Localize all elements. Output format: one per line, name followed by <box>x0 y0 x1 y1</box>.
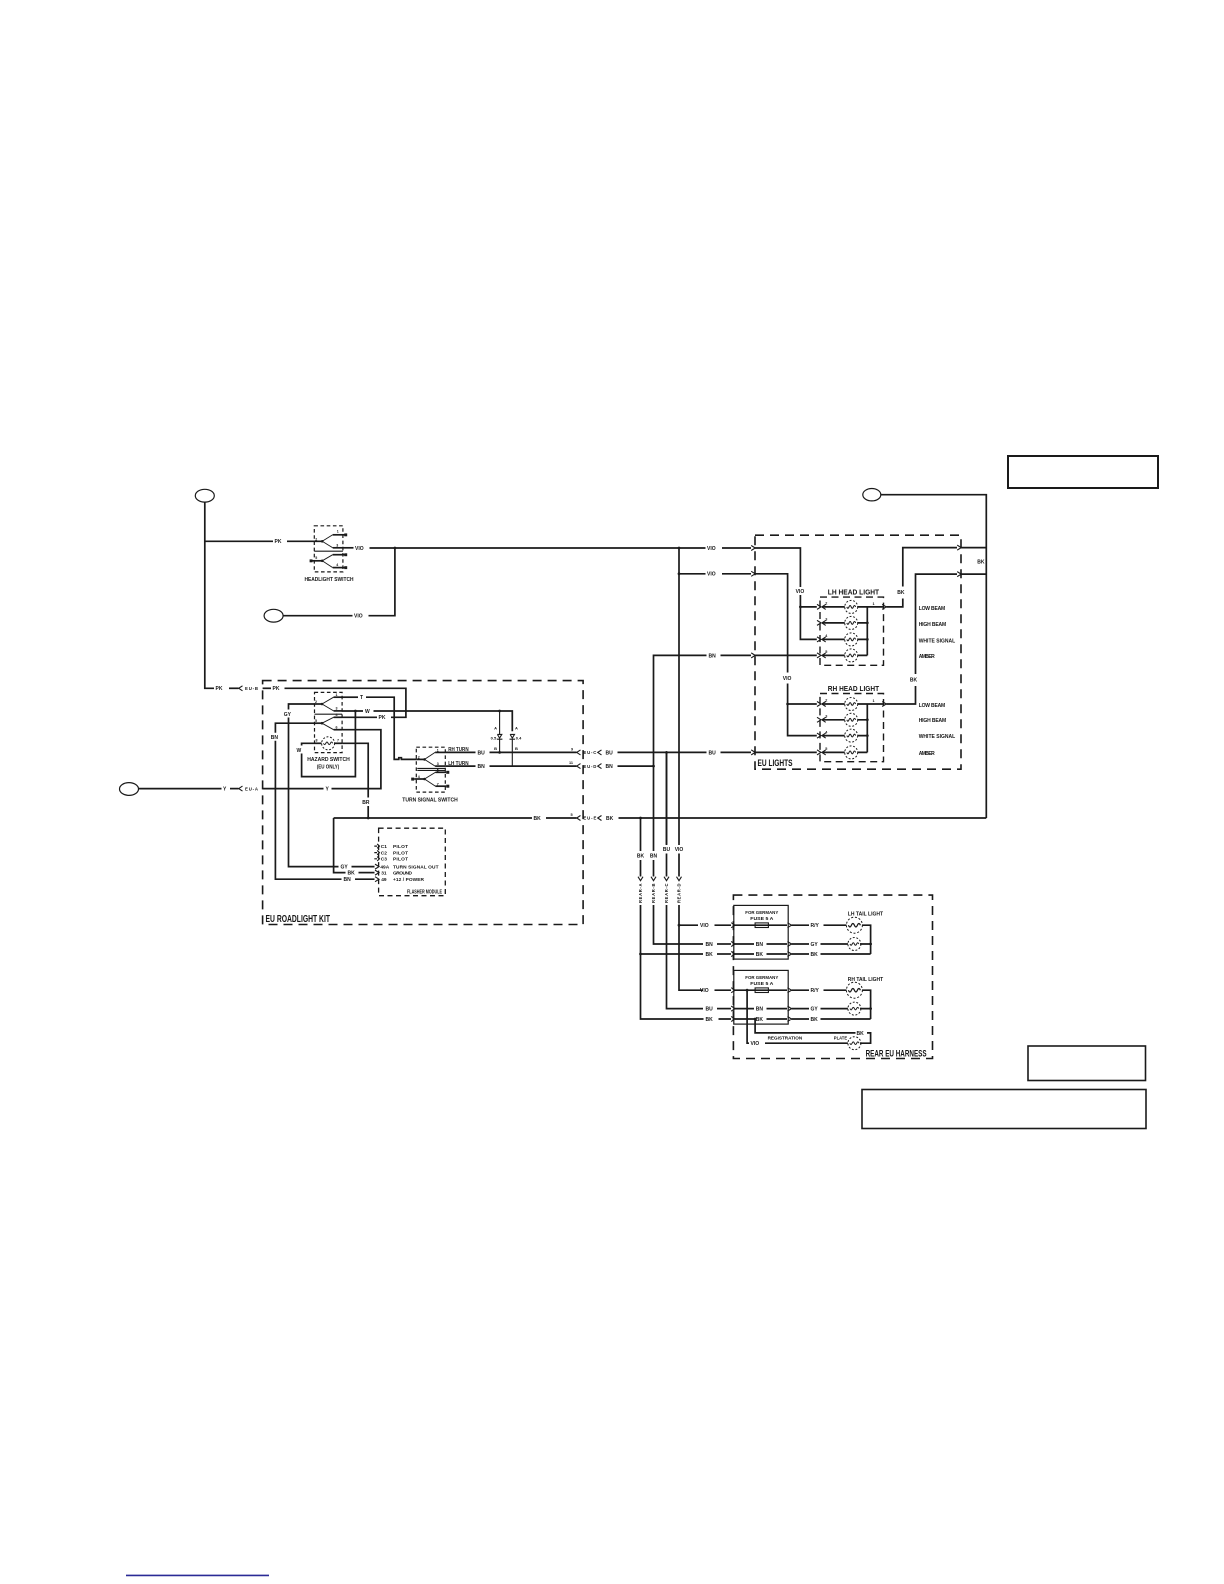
svg-text:BN: BN <box>756 942 764 948</box>
wire BK to LH tail row <box>641 953 704 955</box>
wire BK LH tail row to box <box>717 953 731 955</box>
wire W: hazard pin3 out to diodes <box>342 710 363 712</box>
headlight switch common dot pin 2 <box>321 540 324 543</box>
headlight switch lower pin stub b <box>333 567 346 569</box>
wire GY fuse to RH tail lamp 2 <box>792 1008 849 1010</box>
junction dot BK tail split <box>639 953 642 956</box>
connector EU-D second arrow <box>598 764 602 769</box>
headlight switch pin 3 stub <box>333 547 343 549</box>
svg-text:BU: BU <box>606 750 614 756</box>
svg-text:BK: BK <box>348 871 356 877</box>
wire BK plate ground return <box>860 1033 871 1043</box>
svg-text:BK: BK <box>857 1031 865 1037</box>
hazard mid switch common stub <box>315 722 323 724</box>
junction dot VIO riser <box>394 547 397 550</box>
svg-text:BK: BK <box>606 816 614 822</box>
diode A (hazard to RH turn) <box>497 711 503 752</box>
svg-text:BK: BK <box>756 1017 764 1023</box>
wire BK from LH pin1 up and out <box>886 548 957 607</box>
EU ROADLIGHT KIT dashed box <box>263 681 583 925</box>
wire VIO inside EU lights to LH feeds <box>755 548 817 639</box>
connector bubble (lights feed) mid left <box>264 609 283 622</box>
arrow REAR-A <box>638 877 643 881</box>
LH tail lamp 2 <box>848 938 861 951</box>
svg-text:4: 4 <box>336 563 338 567</box>
svg-text:0.4: 0.4 <box>516 735 522 740</box>
LH lamp white signal <box>845 633 858 646</box>
svg-text:8: 8 <box>316 739 318 743</box>
hazard top switch pin 3 stub <box>334 710 343 712</box>
svg-text:LH HEAD LIGHT: LH HEAD LIGHT <box>828 589 880 596</box>
headlight switch lower common stub with end terminal <box>310 559 313 562</box>
svg-text:BK: BK <box>811 952 819 958</box>
svg-text:BK: BK <box>706 952 714 958</box>
svg-text:B: B <box>494 746 497 751</box>
svg-text:GY: GY <box>811 942 819 948</box>
fuse holder RH row BN <box>735 1008 787 1010</box>
beam function labels RH <box>919 703 956 757</box>
svg-text:BK: BK <box>706 1017 714 1023</box>
svg-text:VIO: VIO <box>675 847 684 853</box>
headlight switch blade to pin 3 <box>322 541 333 548</box>
hazard top switch common dot <box>321 703 324 706</box>
arrow into EU lights entry 4 <box>751 750 755 755</box>
arrow into EU lights entry 1 <box>751 546 755 551</box>
svg-text:BN: BN <box>271 735 279 741</box>
svg-text:31: 31 <box>381 870 387 876</box>
empty label box bottom right small <box>1028 1046 1146 1081</box>
svg-text:FLASHER MODULE: FLASHER MODULE <box>407 889 442 895</box>
svg-text:AMBER: AMBER <box>919 654 935 660</box>
svg-text:LH TAIL LIGHT: LH TAIL LIGHT <box>848 911 884 917</box>
svg-text:EU-C: EU-C <box>583 750 596 755</box>
svg-text:GY: GY <box>284 712 292 718</box>
hazard mid switch blade to pin Y <box>322 723 334 730</box>
svg-text:(EU ONLY): (EU ONLY) <box>317 764 340 770</box>
hazard lamp left stub <box>315 742 323 744</box>
svg-text:VIO: VIO <box>796 589 805 595</box>
wire BK from RH pin1 up and out <box>886 574 957 704</box>
connector bubble (ground) top right <box>863 489 881 501</box>
TS lower blade up <box>425 772 436 779</box>
svg-text:5: 5 <box>825 747 827 751</box>
wire VIO to entry 2 arrow <box>722 573 751 575</box>
pin digits LH head light <box>825 602 874 655</box>
svg-text:LOW BEAM: LOW BEAM <box>919 703 946 709</box>
LH row pin2 wire with inner arrow <box>822 604 826 609</box>
hazard mid switch common dot <box>321 722 324 725</box>
svg-text:B: B <box>515 746 518 751</box>
svg-text:EU ROADLIGHT KIT: EU ROADLIGHT KIT <box>266 914 331 925</box>
wire T: hazard pin1 to turn signal switch common <box>345 696 358 698</box>
svg-text:1: 1 <box>873 699 875 703</box>
RH tail ground bus <box>860 990 871 1019</box>
wire VIO column to arrow <box>678 854 680 877</box>
junction dot at branch tee <box>678 572 681 575</box>
wire PK: inside kit from edge <box>263 687 271 689</box>
fuse RH element <box>755 988 768 993</box>
fuse holder RH row BK <box>735 1018 787 1020</box>
pin digits turn signal switch <box>418 749 439 787</box>
RH row pin3 wire with inner arrow <box>822 717 826 722</box>
wire VIO rear feed riser (down to rear harness) <box>678 574 680 845</box>
svg-text:2: 2 <box>315 700 317 704</box>
TS common dot <box>423 758 426 761</box>
junction dot plate ground <box>754 1018 757 1021</box>
REAR EU HARNESS dashed box <box>733 895 932 1058</box>
svg-text:7: 7 <box>437 782 439 786</box>
RH lamp low beam <box>845 698 858 711</box>
wire BU entry to RH amber pin <box>755 751 817 753</box>
svg-text:0.5: 0.5 <box>491 735 497 740</box>
svg-text:1: 1 <box>337 529 339 533</box>
beam function labels LH <box>919 606 956 660</box>
svg-text:VIO: VIO <box>783 676 792 682</box>
svg-text:REAR-B: REAR-B <box>651 884 656 904</box>
wire BU rear riser <box>666 752 668 844</box>
wire VIO inside EU lights to RH feeds <box>755 574 817 736</box>
hazard mid switch blade to pin PK <box>322 717 334 723</box>
RH arrow pin5 <box>817 750 821 755</box>
junction dot diode A tap <box>498 710 501 713</box>
svg-text:7: 7 <box>337 739 339 743</box>
wire VIO from bubble <box>283 615 352 617</box>
arrow into EU lights entry 2 <box>751 571 755 576</box>
svg-text:49: 49 <box>381 877 387 883</box>
registration plate lamp <box>848 1037 861 1050</box>
svg-text:5: 5 <box>315 719 317 723</box>
svg-text:HEADLIGHT SWITCH: HEADLIGHT SWITCH <box>305 577 354 583</box>
wire Y inside kit <box>263 788 324 790</box>
svg-text:BN: BN <box>344 877 352 883</box>
fuse holder box LH <box>734 905 788 959</box>
flasher pin names <box>380 844 438 883</box>
turn signal switch box <box>416 747 445 792</box>
LH lamp high beam <box>845 616 858 629</box>
junction dot plate feed <box>746 989 749 992</box>
svg-text:HAZARD SWITCH: HAZARD SWITCH <box>307 757 350 763</box>
svg-text:BK: BK <box>756 952 764 958</box>
RH lamp amber <box>845 746 858 759</box>
svg-text:3: 3 <box>825 715 827 719</box>
svg-text:VIO: VIO <box>700 988 709 994</box>
svg-text:4: 4 <box>336 713 338 717</box>
TS lower common dot <box>423 778 426 781</box>
svg-text:VIO: VIO <box>354 614 363 620</box>
wire hazard lamp loop <box>302 711 356 777</box>
hazard lamp right stub <box>334 742 342 744</box>
LH tail ground bus <box>860 925 871 954</box>
RH row pin5 wire with inner arrow <box>822 750 826 755</box>
wire BN into entry arrow <box>721 654 752 656</box>
connector EU-A arrow <box>239 786 243 791</box>
headlight switch pin 1 stub with end terminal <box>333 534 346 536</box>
headlight switch lower common dot <box>321 560 324 563</box>
LH arrow pin3 stub <box>817 620 821 625</box>
TS LH pin stub <box>435 765 445 767</box>
hazard mid switch pin Y stub <box>334 729 343 731</box>
RH tail lamp 2 <box>848 1002 861 1015</box>
svg-text:REGISTRATION: REGISTRATION <box>768 1035 803 1041</box>
wire BU: TS RH output to EU-C <box>445 751 475 753</box>
svg-text:BN: BN <box>709 653 717 659</box>
svg-text:EU-A: EU-A <box>245 786 258 791</box>
junction dot RH bus <box>869 1007 872 1010</box>
connector EU-C second arrow <box>598 750 602 755</box>
wire VIO from switch output <box>343 547 354 549</box>
svg-text:BK: BK <box>977 560 985 566</box>
svg-text:5: 5 <box>315 556 317 560</box>
wire BK to right bus second <box>961 573 986 575</box>
svg-text:T: T <box>360 695 363 701</box>
headlight switch blade to pin 1 <box>322 535 333 542</box>
TS lower pin stub a <box>436 771 447 773</box>
label BK RH tail row <box>704 1016 719 1023</box>
svg-text:2: 2 <box>825 602 827 606</box>
wire ground bus to EU-E <box>334 817 532 819</box>
LH arrow pin2 <box>817 604 821 609</box>
wire ground bus to right riser <box>619 817 987 819</box>
svg-text:PLATE: PLATE <box>834 1035 848 1041</box>
TS lower terminal square b <box>446 785 449 788</box>
svg-text:3: 3 <box>825 618 827 622</box>
headlight switch lower blade up <box>322 555 333 561</box>
svg-text:3: 3 <box>336 544 338 548</box>
wire BK column resume <box>641 905 732 1019</box>
junction dot BK rear branch <box>639 817 642 820</box>
wire BN rear column with connector REAR-B <box>653 860 655 877</box>
wire R/Y fuse to LH tail lamp <box>792 924 847 926</box>
junction dot diode A on BU <box>498 751 501 754</box>
wire BN riser up to EU lights amber row <box>654 655 707 766</box>
wire BN entry to LH amber pin <box>755 654 817 656</box>
wire VIO to riser <box>369 548 395 616</box>
arrow REAR-B <box>651 877 656 881</box>
fuse holder LH row BN <box>735 943 787 945</box>
wire BK to right bus <box>961 547 986 549</box>
svg-text:BN: BN <box>478 764 486 770</box>
TS lower common stub <box>414 778 424 780</box>
connector bubble (battery feed) top left <box>195 489 214 502</box>
svg-text:11: 11 <box>569 761 573 765</box>
wire BU column to arrow <box>666 854 668 877</box>
svg-text:49A: 49A <box>380 864 389 870</box>
hazard switch link bar <box>315 713 343 715</box>
svg-text:BK: BK <box>811 1017 819 1023</box>
wire VIO column resume <box>679 905 703 990</box>
LH arrow pin5 <box>817 653 821 658</box>
svg-text:3: 3 <box>336 707 338 711</box>
wire BN LH tail row to box <box>717 943 731 945</box>
wire BN label to flasher arrow <box>355 878 375 880</box>
wire hazard lamp ground to BR riser <box>342 743 368 818</box>
wire BU into entry arrow <box>721 751 752 753</box>
junction dot RH tap <box>786 703 789 706</box>
svg-text:HIGH BEAM: HIGH BEAM <box>919 718 947 724</box>
wire PK: bubble down to EU-B row <box>205 502 214 688</box>
svg-text:VIO: VIO <box>751 1041 760 1047</box>
svg-text:C2: C2 <box>381 850 387 856</box>
TS lower blade down <box>425 779 436 786</box>
connector EU-B arrow <box>239 686 243 691</box>
wire BU rear column with connector REAR-C <box>666 752 668 845</box>
placeholder blocks <box>126 456 1158 1575</box>
TS blade to LH pin <box>425 759 436 766</box>
wire BN continue to EU-D connector <box>490 765 577 767</box>
wire VIO LH low beam tap <box>800 606 816 608</box>
svg-text:3: 3 <box>437 762 439 766</box>
TS feed into common <box>416 758 424 760</box>
RH row pin2 wire with inner arrow <box>822 702 826 707</box>
svg-text:R/Y: R/Y <box>811 988 820 994</box>
svg-text:REAR-D: REAR-D <box>676 884 681 904</box>
wire BK label to flasher arrow <box>359 872 375 874</box>
label PK on switch feed <box>273 538 287 545</box>
svg-text:C1: C1 <box>381 844 387 850</box>
svg-text:PILOT: PILOT <box>393 857 408 863</box>
svg-text:AMBER: AMBER <box>919 751 935 757</box>
svg-text:BK: BK <box>534 816 542 822</box>
wire BK: bubble to right bus riser <box>881 495 987 818</box>
svg-text:A: A <box>494 726 497 731</box>
RH arrow pin2 <box>817 702 821 707</box>
svg-text:PK: PK <box>275 539 282 545</box>
wire BK plate to fuse box BK row <box>755 1019 855 1033</box>
wire VIO branch down and to EU lights entry 2 <box>679 548 706 574</box>
wire GY label to flasher arrow <box>352 866 375 868</box>
wire VIO to LH tail row <box>679 924 698 926</box>
empty label box bottom right large <box>862 1090 1146 1129</box>
TS lower pin stub b <box>436 785 447 787</box>
svg-text:2: 2 <box>418 755 420 759</box>
wire PK: to corner and down to hazard switch pin <box>285 688 406 717</box>
svg-text:1: 1 <box>336 693 338 697</box>
svg-text:EU-B: EU-B <box>245 686 258 691</box>
svg-text:1: 1 <box>437 749 439 753</box>
LH arrow pin4 <box>817 637 821 642</box>
wire BN: hazard mid common to flasher 49 <box>275 723 341 879</box>
TS lower terminal square a <box>446 771 449 774</box>
connector EU-E second arrow <box>598 816 602 821</box>
svg-text:BN: BN <box>756 1007 764 1013</box>
svg-text:W: W <box>365 709 370 715</box>
svg-text:W: W <box>297 748 302 754</box>
wire BU column resume <box>667 905 704 1009</box>
fuse holder LH row BK <box>735 953 787 955</box>
wire BN: TS LH output to EU-D <box>445 765 475 767</box>
empty label box top right <box>1008 456 1158 488</box>
wire T down to TS feed row <box>366 697 416 759</box>
svg-text:EU-D: EU-D <box>583 764 596 769</box>
svg-text:+12 / POWER: +12 / POWER <box>393 877 425 883</box>
flasher pin 49A arrow <box>375 864 379 869</box>
wire BK row to RH ground bus <box>792 1018 871 1020</box>
wire VIO RH low beam tap <box>788 703 817 705</box>
RH pin1 exit arrow <box>882 702 886 707</box>
wire BN column resume <box>654 905 704 944</box>
fuse LH element <box>755 923 768 928</box>
svg-text:HIGH BEAM: HIGH BEAM <box>919 622 947 628</box>
junction dot LH tap <box>799 606 802 609</box>
svg-text:2: 2 <box>825 699 827 703</box>
hazard top switch common stub <box>315 703 323 705</box>
RH arrow pin4 <box>817 733 821 738</box>
connector bubble (ignition feed) far left <box>120 783 139 796</box>
flasher pin 31 arrow <box>375 870 379 875</box>
svg-text:PK: PK <box>273 686 280 692</box>
hazard top switch pin 1 stub <box>334 696 345 698</box>
fuse LH wire row <box>735 924 787 926</box>
flasher module box <box>379 828 446 896</box>
wire BU continue to EU-C connector <box>490 751 577 753</box>
wire VIO to registration plate lamp <box>747 990 749 1043</box>
headlight switch link bar <box>314 550 343 552</box>
hyperlink underline bottom left <box>126 1574 269 1576</box>
svg-text:REAR-C: REAR-C <box>664 884 669 904</box>
svg-text:VIO: VIO <box>700 923 709 929</box>
svg-text:PK: PK <box>216 686 223 692</box>
RH lamp white signal <box>845 729 858 742</box>
svg-text:1: 1 <box>873 602 875 606</box>
flasher pin C2 stub <box>374 850 379 854</box>
svg-text:PK: PK <box>379 715 386 721</box>
arrow into EU lights entry 3 <box>751 653 755 658</box>
svg-text:FUSE 5 A: FUSE 5 A <box>750 916 774 921</box>
junction dots RH bus <box>866 718 869 721</box>
wire Y label to connector <box>230 788 239 790</box>
headlight switch lower blade down <box>322 561 333 568</box>
svg-text:FOR GERMANY: FOR GERMANY <box>745 975 779 980</box>
junction dot BU rear branch <box>665 751 668 754</box>
wire W continue to diode drop <box>374 711 513 731</box>
svg-text:EU LIGHTS: EU LIGHTS <box>758 758 793 768</box>
svg-text:5: 5 <box>825 650 827 654</box>
wire GY: hazard common to flasher 49A <box>289 704 339 867</box>
wire PK: label segment to connector EU-B <box>229 687 239 689</box>
wire VIO plate continue <box>765 1042 849 1044</box>
svg-text:PILOT: PILOT <box>393 844 408 850</box>
exit arrows fuse holder LH <box>788 923 792 957</box>
svg-text:2: 2 <box>315 537 317 541</box>
headlight switch wire PK into pin 2 <box>205 540 322 542</box>
wire VIO main run to EU lights junction <box>370 547 706 549</box>
svg-text:BU: BU <box>663 847 671 853</box>
svg-text:GY: GY <box>811 1007 819 1013</box>
LH row pin3 wire with inner arrow <box>822 620 826 625</box>
connector EU-C arrow <box>577 750 581 755</box>
svg-text:EU-E: EU-E <box>583 816 596 821</box>
EU LIGHTS dashed box <box>755 535 961 769</box>
LH tail lamp (tail/stop) <box>846 917 862 933</box>
LH lamp low beam <box>845 600 858 613</box>
wire BK rear column with connector REAR-A <box>640 860 642 877</box>
wire BK rear riser top <box>640 818 642 851</box>
junction dot BN riser <box>652 765 655 768</box>
arrows into fuse holder RH <box>731 988 735 1022</box>
arrow REAR-D <box>677 877 682 881</box>
svg-text:VIO: VIO <box>707 572 716 578</box>
fuse RH wire row <box>735 989 787 991</box>
diode A labels <box>491 726 497 751</box>
svg-text:REAR-A: REAR-A <box>638 884 643 904</box>
arrow REAR-C <box>664 877 669 881</box>
RH lamp high beam <box>845 713 858 726</box>
RH arrow pin3 stub <box>817 717 821 722</box>
flasher pin C1 stub <box>374 844 379 848</box>
fuse holder box RH <box>734 970 788 1024</box>
exit arrow right edge top <box>957 545 961 550</box>
svg-text:R/Y: R/Y <box>811 923 820 929</box>
